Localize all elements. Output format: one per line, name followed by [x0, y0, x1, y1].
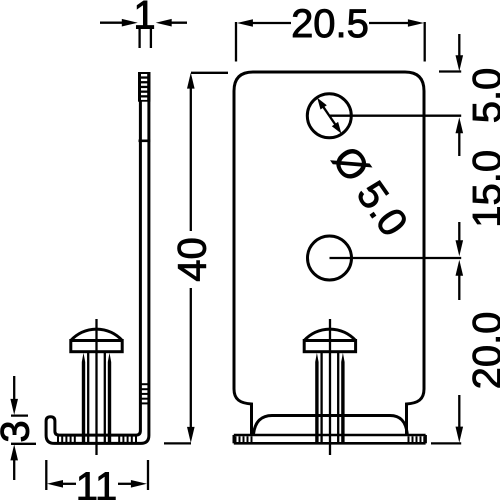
hole 1 leader line: [329, 115, 461, 117]
dim 20.5 line left: [237, 19, 291, 27]
plate top extension line right: [439, 70, 461, 72]
hole 2 leader line: [330, 257, 462, 259]
screw side view head dome: [71, 329, 122, 340]
svg-text:3: 3: [0, 420, 38, 442]
dim 5.0 top arrow: [456, 34, 464, 71]
screw side view shank outer right: [108, 353, 111, 443]
dim 11 line right: [118, 480, 147, 488]
dim 1 left arrow: [100, 19, 138, 27]
screw front view head dome: [304, 329, 355, 340]
dim 3 top arrow: [10, 376, 18, 415]
dim 40 extension line bottom: [164, 442, 191, 444]
dim 5.0 bottom arrow: [456, 117, 464, 156]
svg-text:Ø 5.0: Ø 5.0: [324, 139, 416, 244]
side plate seam line: [139, 140, 151, 143]
hole 1 diameter arrow: [317, 98, 341, 134]
dim 40 extension line top: [191, 72, 228, 74]
screw front view center line: [329, 319, 331, 455]
front view bar serration ticks right: [409, 436, 425, 442]
side plate top serration: [138, 72, 150, 102]
hole 2 circle: [308, 236, 352, 280]
front view bottom bar: [234, 435, 426, 443]
svg-text:20.5: 20.5: [291, 2, 369, 46]
dim 1 extension lines: [140, 26, 151, 49]
screw front view shank inner lines: [322, 353, 339, 443]
side plate bend serration: [139, 384, 150, 403]
screw side view head rect: [71, 341, 122, 352]
dim 15.0 bottom arrow: [456, 222, 464, 256]
svg-text:20.0: 20.0: [466, 312, 500, 390]
screw front view shank outer right: [341, 353, 344, 443]
dim 20.5 extension lines: [236, 22, 425, 62]
svg-text:11: 11: [76, 465, 118, 500]
dim 3 extension lines: [11, 416, 36, 444]
hole 1 circle: [307, 94, 351, 138]
svg-text:15.0: 15.0: [466, 150, 500, 228]
screw side view shank inner lines: [88, 353, 105, 443]
svg-text:1: 1: [133, 0, 155, 38]
side flange serration ticks right: [119, 436, 136, 442]
dim 1 right arrow: [156, 19, 187, 27]
dim 40 line top: [187, 73, 195, 231]
dim 11 line left: [47, 480, 76, 488]
screw front view shank outer left: [315, 353, 318, 443]
bar bottom extension line right: [431, 442, 461, 444]
dim 20.5 line right: [369, 19, 424, 27]
front view bar serration ticks left: [236, 436, 252, 442]
side flange serration ticks left: [58, 436, 75, 442]
dim 40 line bottom: [187, 288, 195, 443]
svg-text:5.0: 5.0: [466, 68, 500, 124]
dim 11 extension lines: [46, 460, 148, 490]
screw side view shank outer left: [82, 353, 85, 443]
front view plate outline: [234, 72, 424, 435]
front view flange mound: [254, 416, 408, 435]
screw front view head rect: [304, 341, 355, 352]
dim 20.0 bottom arrow: [456, 395, 464, 443]
side view plate outline: [46, 74, 149, 444]
svg-text:40: 40: [171, 237, 215, 282]
dim 3 bottom arrow: [10, 444, 18, 480]
dim 20.0 top arrow: [456, 260, 464, 300]
screw side view center line: [95, 319, 97, 455]
